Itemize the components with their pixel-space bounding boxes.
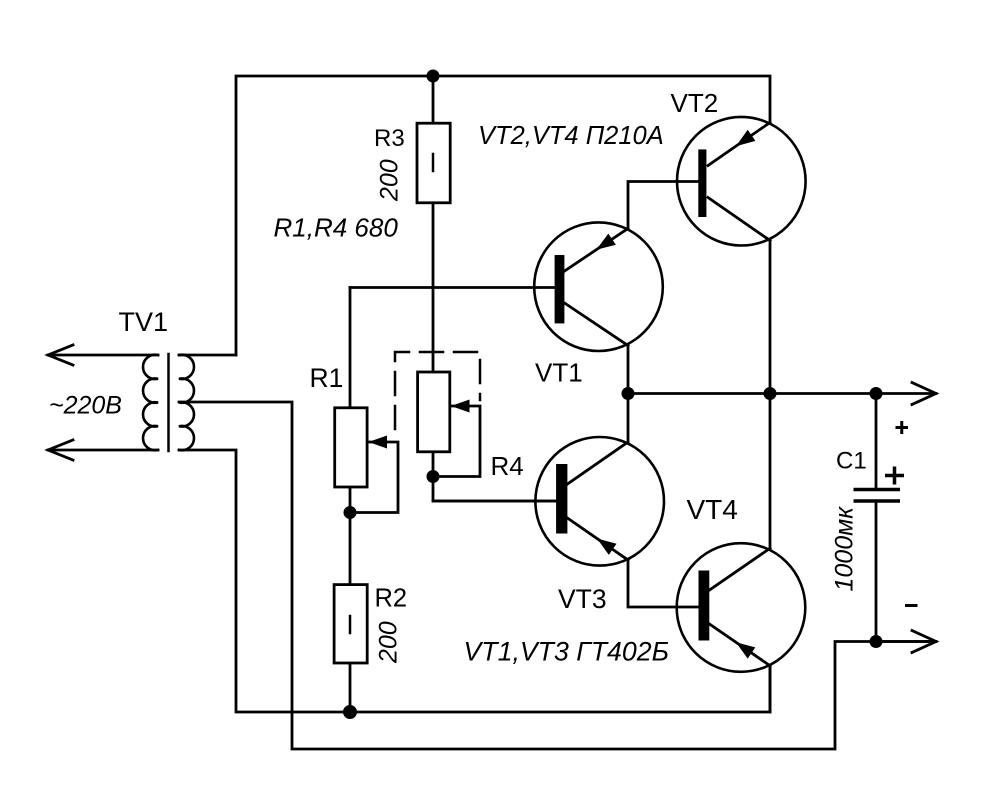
svg-text:R1,R4 680: R1,R4 680 (274, 213, 399, 243)
svg-text:1000мк: 1000мк (831, 506, 859, 592)
svg-text:R1: R1 (310, 363, 344, 393)
svg-text:VT1: VT1 (535, 358, 583, 388)
svg-text:R3: R3 (374, 125, 405, 152)
svg-text:TV1: TV1 (119, 307, 169, 337)
svg-text:R2: R2 (375, 585, 408, 613)
svg-text:~220В: ~220В (49, 391, 122, 419)
svg-text:VT2,VT4 П210А: VT2,VT4 П210А (478, 122, 664, 150)
svg-text:200: 200 (376, 159, 404, 202)
svg-text:200: 200 (375, 621, 403, 664)
svg-text:C1: C1 (836, 448, 867, 475)
svg-text:VT1,VT3 ГТ402Б: VT1,VT3 ГТ402Б (464, 637, 669, 667)
svg-text:VT2: VT2 (671, 88, 719, 118)
svg-text:VT3: VT3 (558, 584, 607, 614)
svg-text:R4: R4 (491, 451, 524, 481)
svg-text:VT4: VT4 (687, 494, 738, 525)
